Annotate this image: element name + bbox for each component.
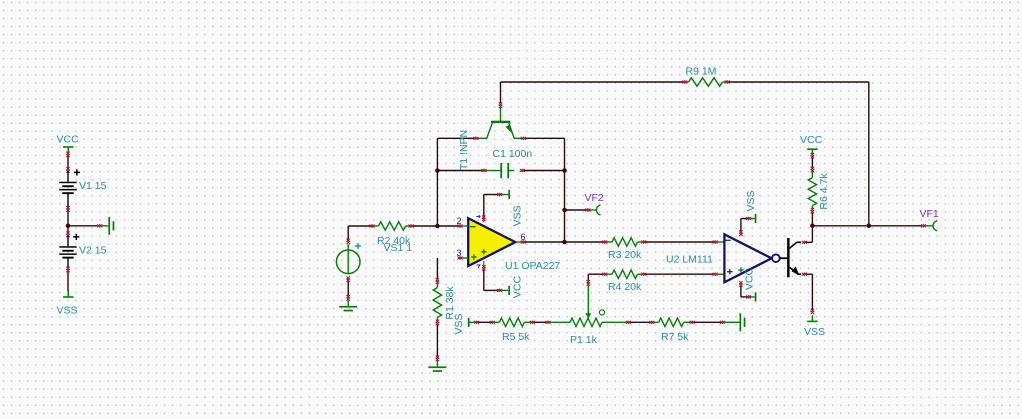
wire P1 to R7 — [630, 321, 650, 323]
wire R5 to P1 — [534, 321, 546, 323]
VSS rail symbol — [67, 291, 69, 296]
battery V2 15 — [67, 226, 69, 232]
resistor R7 5k — [649, 321, 652, 324]
ground (VS1) — [339, 306, 357, 308]
svg-text:VCC: VCC — [512, 275, 524, 298]
node C: output row — [810, 224, 815, 229]
svg-text:U1 OPA227: U1 OPA227 — [505, 260, 560, 272]
U1 pin 3 lead — [458, 257, 461, 260]
svg-text:VSS: VSS — [804, 326, 825, 338]
svg-text:R3 20k: R3 20k — [608, 249, 642, 261]
VSS rail (bottom row) — [468, 318, 470, 327]
svg-text:VSS: VSS — [745, 190, 757, 211]
svg-text:R6 4.7k: R6 4.7k — [818, 173, 830, 210]
node junction battery midpoint — [66, 224, 71, 229]
svg-text:R7 5k: R7 5k — [661, 331, 689, 343]
U1 V+ power stub (bottom) — [483, 261, 485, 267]
potentiometer P1 1k — [550, 321, 570, 323]
svg-text:VCC: VCC — [57, 134, 80, 146]
wire Q emitter to VSS — [802, 273, 805, 276]
wire R9 to right drop — [729, 81, 869, 83]
svg-text:R5 5k: R5 5k — [502, 331, 530, 343]
capacitor C1 100n — [437, 170, 482, 172]
wire T1 base up to feedback row — [500, 82, 502, 103]
comparator U2 LM111 — [724, 234, 771, 282]
wire junction to ground — [68, 225, 98, 227]
wire VS1 bottom lead — [347, 276, 350, 279]
svg-text:T1 !NPN: T1 !NPN — [458, 130, 470, 170]
resistor R9 1M — [682, 81, 685, 84]
node A: left feedback rail — [436, 138, 438, 226]
svg-text:U2 LM111: U2 LM111 — [666, 254, 713, 266]
svg-text:VSS: VSS — [511, 205, 523, 226]
svg-text:V2 15: V2 15 — [79, 245, 107, 257]
svg-text:P1 1k: P1 1k — [570, 334, 598, 346]
op-amp U1 OPA227 — [468, 218, 515, 266]
svg-text:VS1 1: VS1 1 — [384, 242, 413, 254]
U1 V- power stub (top) — [483, 218, 485, 222]
wire top row to T1 collector — [437, 137, 474, 139]
U1 output pin 6 — [515, 241, 521, 243]
resistor R2 40k — [370, 225, 373, 228]
ground (bottom row) — [740, 313, 742, 331]
svg-text:VCC: VCC — [744, 267, 756, 290]
svg-text:VSS: VSS — [453, 313, 465, 334]
transistor Q (output stage, black) — [780, 257, 788, 259]
pin VF1 — [869, 225, 922, 227]
svg-text:R4 20k: R4 20k — [608, 281, 642, 293]
wire top feedback row (R9 row) — [501, 81, 684, 83]
resistor R5 5k — [478, 321, 490, 323]
pin VF2 — [565, 209, 587, 211]
battery V1 15 — [67, 171, 69, 182]
wire R3 to U2 — [646, 241, 714, 243]
resistor R4 20k — [588, 273, 603, 275]
svg-text:VCC: VCC — [800, 134, 823, 146]
svg-text:VF1: VF1 — [920, 208, 939, 220]
voltage source VS1 — [336, 250, 360, 274]
svg-text:6: 6 — [521, 232, 526, 242]
wire VS1 top lead — [347, 244, 349, 250]
VSS rail (right) — [811, 315, 813, 320]
VCC rail symbol — [63, 146, 73, 148]
wire V1 to junction — [66, 206, 69, 209]
svg-text:C1 100n: C1 100n — [493, 148, 533, 160]
resistor R6 4.7k — [811, 153, 814, 156]
svg-text:VF2: VF2 — [585, 192, 604, 204]
U2 V+ power stub (bottom) — [739, 281, 742, 284]
svg-text:2: 2 — [457, 216, 462, 226]
ground (R1) — [428, 366, 446, 368]
wire V2 to VSS rail — [66, 267, 69, 270]
svg-text:3: 3 — [457, 248, 462, 258]
T1 base lead — [500, 107, 502, 123]
svg-text:V1 15: V1 15 — [79, 180, 107, 192]
transistor T1 !NPN — [478, 137, 487, 139]
wire T1 emitter to right rail — [525, 137, 564, 139]
resistor R3 20k — [565, 241, 603, 243]
wire R7 to ground — [694, 321, 721, 323]
svg-text:R9 1M: R9 1M — [686, 66, 717, 78]
wire Q collector — [802, 241, 805, 244]
U2 V- power stub (top) — [739, 230, 742, 233]
resistor R1 38k — [436, 258, 438, 279]
node B: right rail — [564, 138, 566, 242]
ground (battery midpoint) — [108, 217, 110, 235]
wire R4 to U2 — [646, 273, 714, 275]
wire R1 to ground — [436, 325, 438, 357]
wire right feedback drop — [868, 82, 870, 226]
wire VCC rail to V1 — [67, 156, 69, 169]
svg-text:VSS: VSS — [57, 305, 78, 317]
P1 wiper — [587, 274, 589, 280]
wire R2 to op-amp node — [413, 225, 438, 227]
U1 pin 2 lead — [458, 225, 461, 228]
